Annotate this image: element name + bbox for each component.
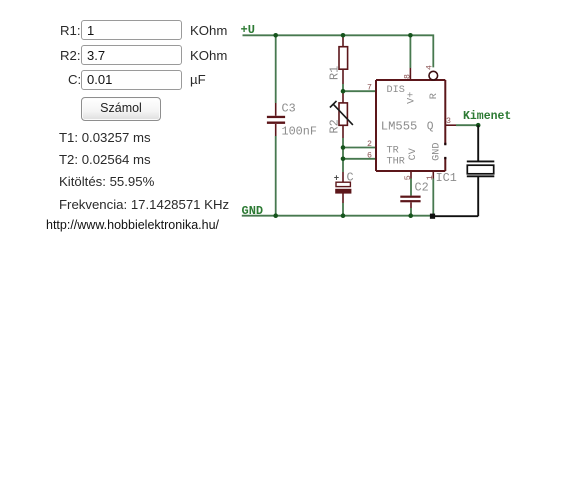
svg-text:8: 8 xyxy=(403,74,412,79)
svg-text:+U: +U xyxy=(241,23,255,37)
svg-text:5: 5 xyxy=(404,175,413,180)
svg-text:C2: C2 xyxy=(415,181,429,195)
svg-text:GND: GND xyxy=(242,204,264,218)
svg-text:C: C xyxy=(347,171,354,185)
svg-text:TR: TR xyxy=(387,145,399,156)
svg-text:100nF: 100nF xyxy=(282,125,317,139)
svg-text:7: 7 xyxy=(367,84,372,93)
svg-text:C3: C3 xyxy=(282,102,296,116)
svg-text:IC1: IC1 xyxy=(436,171,457,185)
svg-text:+: + xyxy=(334,173,339,183)
svg-text:V+: V+ xyxy=(407,92,418,104)
svg-text:6: 6 xyxy=(367,151,372,160)
svg-text:GND: GND xyxy=(432,143,443,161)
svg-text:2: 2 xyxy=(367,140,372,149)
svg-text:1: 1 xyxy=(426,175,435,180)
svg-text:Kimenet: Kimenet xyxy=(463,110,511,123)
svg-text:LM555: LM555 xyxy=(381,119,418,133)
svg-text:3: 3 xyxy=(446,117,451,126)
svg-text:Q: Q xyxy=(427,121,434,133)
svg-text:R1: R1 xyxy=(328,66,342,80)
svg-text:CV: CV xyxy=(408,147,419,160)
svg-text:DIS: DIS xyxy=(387,85,405,96)
svg-text:4: 4 xyxy=(426,65,435,70)
svg-text:R2: R2 xyxy=(328,119,342,133)
svg-text:THR: THR xyxy=(387,156,405,167)
svg-text:R: R xyxy=(429,93,440,99)
